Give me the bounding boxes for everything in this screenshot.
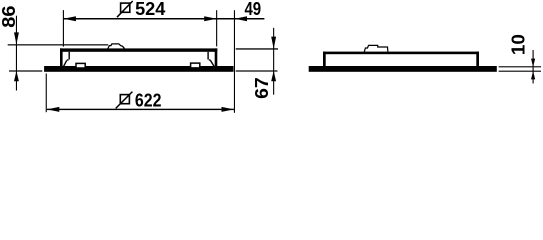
panel bar (44, 66, 233, 72)
top dimension line 524/49 (63, 18, 264, 20)
housing right wall right view (476, 52, 479, 66)
svg-text:10: 10 (508, 34, 529, 55)
dimension 86 vertical line (16, 16, 17, 91)
housing left wall (60, 48, 63, 66)
symbol slash 622 (116, 92, 133, 109)
connector bump right view (364, 45, 388, 51)
86 arrow up (14, 71, 19, 81)
symbol square 524 (121, 3, 130, 12)
housing top edge right view (323, 52, 479, 55)
svg-text:524: 524 (135, 0, 166, 19)
housing left wall right view (323, 52, 326, 66)
extension line 622 left (46, 74, 47, 113)
left spring clip nub (67, 59, 69, 60)
86 bottom extension (9, 70, 42, 71)
bottom dimension 622 line (47, 109, 234, 110)
dimension 10 vertical line (533, 50, 534, 84)
extension line 524 right (216, 10, 217, 46)
symbol slash 524 (117, 1, 133, 17)
67 arrow down (271, 37, 276, 49)
arrow 524 right (204, 16, 216, 21)
67 arrow up (271, 71, 276, 81)
67 bottom extension (236, 70, 278, 71)
panel bar right view (309, 66, 497, 72)
housing right wall (215, 48, 218, 66)
dimension 67 vertical line (273, 28, 274, 95)
arrow 524 left (64, 16, 76, 21)
86 arrow down (14, 32, 19, 44)
left spring clip vertical (69, 52, 70, 60)
svg-text:86: 86 (0, 5, 20, 28)
symbol square 622 (120, 95, 129, 104)
arrow 622 left (47, 107, 59, 112)
left spring clip diagonal (63, 60, 66, 67)
10 arrow down (531, 59, 535, 67)
dimension 10 bottom extension (499, 71, 541, 72)
svg-text:67: 67 (252, 77, 272, 99)
svg-text:49: 49 (244, 0, 261, 19)
right spring clip diagonal (210, 60, 214, 67)
left clip box (76, 63, 85, 68)
extension line 524 left (63, 10, 64, 47)
dimension 10 top extension (499, 66, 541, 67)
extension line 49/622 right (234, 10, 235, 113)
connector bump (108, 44, 125, 49)
right clip box (191, 63, 200, 68)
svg-text:622: 622 (135, 89, 162, 110)
10 arrow up (531, 71, 535, 79)
67 top extension (236, 48, 278, 49)
86 top extension (8, 44, 109, 45)
right spring clip vertical (207, 52, 208, 60)
arrow 622 right (222, 107, 234, 112)
arrow 49 outer (235, 16, 247, 21)
housing top edge (60, 48, 217, 51)
right spring clip nub (209, 59, 211, 60)
